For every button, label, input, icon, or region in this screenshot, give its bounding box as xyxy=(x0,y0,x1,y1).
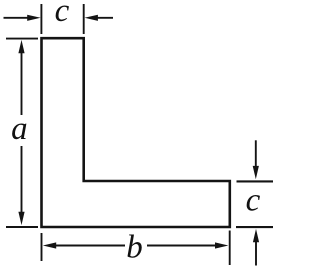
dimension leader left with arrow (b) xyxy=(55,245,125,247)
svg-text:b: b xyxy=(126,230,143,266)
dimension line lower segment with down arrow (a) xyxy=(21,146,23,214)
svg-text:c: c xyxy=(55,0,70,29)
down arrow (right c) xyxy=(255,140,257,167)
tick top (right c dimension) xyxy=(237,180,274,182)
svg-text:c: c xyxy=(246,182,261,218)
up arrow (right c) xyxy=(255,242,257,266)
tick bottom (a dimension) xyxy=(6,226,38,228)
dimension line upper segment with up arrow (a) xyxy=(21,51,23,115)
tick bottom (right c dimension) xyxy=(236,226,273,228)
dimension leader left with arrow (top c) xyxy=(4,17,30,19)
tick top (a dimension) xyxy=(6,38,38,40)
extension line left (b dimension) xyxy=(41,233,43,261)
dimension leader right with arrow (b) xyxy=(147,245,216,247)
svg-text:a: a xyxy=(11,111,28,147)
extension line right (top c dimension) xyxy=(83,4,85,34)
extension line left (top c dimension) xyxy=(40,4,42,34)
extension line right (b dimension) xyxy=(229,231,231,266)
dimension leader right with arrow (top c) xyxy=(97,17,114,19)
L-shape angle outline xyxy=(42,38,230,227)
